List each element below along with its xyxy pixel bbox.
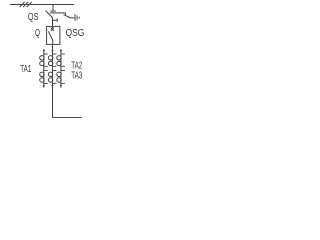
wire: outgoing feeder elbow: [53, 117, 82, 119]
busbar: [10, 4, 74, 6]
breaker top stub: [52, 26, 54, 28]
breaker contact cross: [51, 28, 54, 31]
plug contact arrow right bottom: [60, 85, 62, 87]
svg-text:Q: Q: [35, 26, 40, 38]
CT middle lower coil circle a: [48, 72, 52, 76]
CT TA2 coil circle b: [57, 61, 61, 65]
CT TA1 coil circle b: [40, 61, 44, 65]
isolating contact stub: [53, 19, 58, 21]
plug contact arrow middle top: [51, 50, 53, 52]
busbar slash 1: [20, 2, 25, 7]
plug contact arrow left bottom: [43, 85, 45, 87]
contact bar right g1 bottom: [60, 65, 65, 67]
contact bar left g1 bottom: [43, 65, 48, 67]
wire: right CT column: [60, 49, 62, 88]
wire: QSG ground lead: [71, 17, 75, 19]
contact bar left g1 top: [43, 53, 48, 55]
wire: left CT column: [43, 49, 45, 88]
wire: QSG branch: [50, 12, 65, 14]
ground bar long: [74, 14, 76, 21]
CT TA3 coil circle a: [57, 72, 61, 76]
contact bar left g2 bottom: [43, 82, 48, 84]
breaker bottom stub: [52, 40, 54, 44]
svg-text:TA1: TA1: [20, 62, 31, 74]
contact bar left g2 top: [43, 69, 48, 71]
wire: busbar drop: [52, 5, 54, 11]
svg-text:QSG: QSG: [66, 27, 85, 38]
breaker Q blade: [48, 31, 52, 40]
contact bar right g2 top: [60, 69, 65, 71]
svg-text:TA3: TA3: [71, 69, 82, 81]
CT left lower coil circle a: [40, 72, 44, 76]
plug contact arrow middle bottom: [51, 85, 53, 87]
wire: middle CT column: [52, 54, 54, 118]
disconnector QS fixed-contact tick: [50, 10, 55, 12]
CT TA2 coil circle a: [57, 56, 61, 60]
CT middle coil circle b: [48, 61, 52, 65]
busbar slash 2: [23, 2, 28, 7]
CT middle coil circle a: [48, 56, 52, 60]
contact bar middle g1 bottom: [52, 65, 57, 67]
disconnector QS blade: [46, 11, 53, 18]
wire: box to CT section: [52, 44, 54, 54]
CT left lower coil circle b: [40, 78, 44, 82]
plug contact arrow right top: [60, 50, 62, 52]
CT TA1 coil circle a: [40, 56, 44, 60]
ground bar medium: [76, 15, 78, 19]
CT TA3 coil circle b: [57, 78, 61, 82]
svg-text:QS: QS: [28, 11, 39, 22]
CT middle lower coil circle b: [48, 78, 52, 82]
earthing switch QSG blade: [64, 15, 71, 18]
wire: main line QS to breaker box: [52, 18, 54, 27]
contact bar middle g2 top: [52, 69, 57, 71]
earthing switch QSG contact tick: [65, 13, 67, 15]
ground bar short: [78, 17, 80, 19]
plug contact arrow left top: [43, 50, 45, 52]
contact bar middle g1 top: [52, 53, 57, 55]
contact bar middle g2 bottom: [52, 82, 57, 84]
isolating contact bar: [56, 19, 58, 22]
contact bar right g2 bottom: [60, 82, 65, 84]
breaker withdrawable box: [47, 26, 60, 44]
busbar slash 3: [27, 2, 32, 7]
contact bar right g1 top: [60, 53, 65, 55]
